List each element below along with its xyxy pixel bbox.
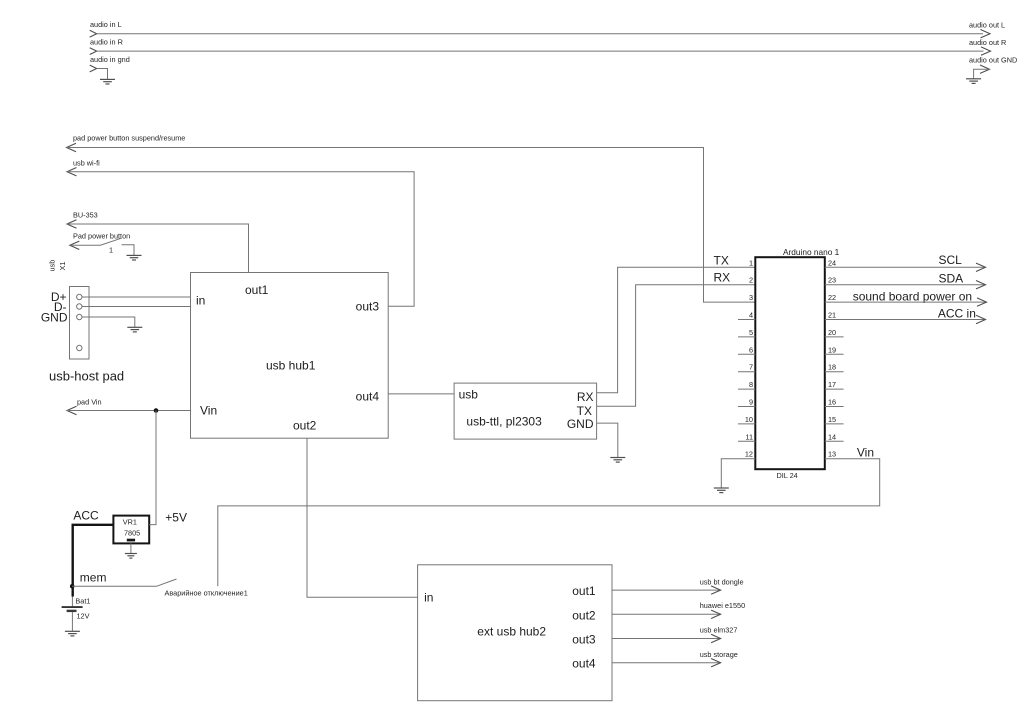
wire xyxy=(218,459,880,587)
svg-text:huawei e1550: huawei e1550 xyxy=(700,601,745,610)
wire xyxy=(70,244,100,246)
switch contact xyxy=(122,245,135,255)
pin 10 xyxy=(738,423,755,425)
svg-text:ACC: ACC xyxy=(73,508,99,522)
svg-text:out4: out4 xyxy=(356,390,380,404)
pin circle D- xyxy=(77,304,82,309)
wire usb-ttl TX to U1 pin2 (RX) xyxy=(597,285,756,407)
switch Pad power button xyxy=(70,232,134,256)
svg-text:out1: out1 xyxy=(572,584,596,598)
net BU-353 (to hub1 out1) xyxy=(67,211,249,273)
svg-text:usb bt dongle: usb bt dongle xyxy=(700,577,744,586)
svg-text:BU-353: BU-353 xyxy=(73,211,98,220)
svg-text:GND: GND xyxy=(41,311,68,325)
svg-text:8: 8 xyxy=(749,380,753,389)
wire D+ to hub1 in xyxy=(82,296,191,298)
svg-text:16: 16 xyxy=(828,398,836,407)
pin 11 xyxy=(738,440,755,442)
svg-text:usb-ttl, pl2303: usb-ttl, pl2303 xyxy=(466,415,542,429)
lead to ground xyxy=(71,612,73,631)
svg-text:+5V: +5V xyxy=(165,511,187,525)
svg-text:24: 24 xyxy=(828,258,836,267)
usb-ttl, pl2303 xyxy=(454,383,596,439)
pin circle D+ xyxy=(77,294,82,299)
svg-text:12V: 12V xyxy=(77,612,90,621)
svg-text:audio out R: audio out R xyxy=(969,38,1006,47)
ground xyxy=(714,488,729,493)
svg-text:15: 15 xyxy=(828,415,836,424)
body xyxy=(755,257,825,469)
switch blade xyxy=(157,579,177,586)
svg-text:7805: 7805 xyxy=(124,528,140,537)
svg-text:audio in L: audio in L xyxy=(90,20,122,29)
pin 8 xyxy=(738,388,755,390)
svg-text:1: 1 xyxy=(749,258,753,267)
node mem / junction xyxy=(70,570,107,588)
node audio in R xyxy=(90,38,984,55)
svg-text:22: 22 xyxy=(828,293,836,302)
svg-text:ACC in: ACC in xyxy=(938,307,976,321)
svg-text:in: in xyxy=(424,591,433,605)
svg-text:usb elm327: usb elm327 xyxy=(700,626,738,635)
net sound board power on (pin 22) xyxy=(825,290,987,307)
svg-text:12: 12 xyxy=(745,450,753,459)
wire xyxy=(67,172,414,307)
node audio out GND xyxy=(969,56,1017,79)
pin 16 xyxy=(825,406,844,408)
svg-text:audio in R: audio in R xyxy=(90,38,123,47)
svg-text:10: 10 xyxy=(745,415,753,424)
regulator VR1 7805 xyxy=(73,411,187,597)
net usb bt dongle (hub2 out1) xyxy=(612,577,744,594)
wire xyxy=(974,69,990,78)
wire +5V output up to pad Vin junction xyxy=(149,411,156,525)
svg-text:out2: out2 xyxy=(572,608,596,622)
svg-text:RX: RX xyxy=(577,390,594,404)
plus plate xyxy=(62,606,83,608)
wire xyxy=(67,148,756,303)
net SCL (pin 24) xyxy=(825,253,986,272)
body xyxy=(113,516,149,544)
svg-text:23: 23 xyxy=(828,276,836,285)
svg-text:usb storage: usb storage xyxy=(700,650,738,659)
wire xyxy=(67,224,249,273)
IC U1 Arduino nano 1 xyxy=(714,247,844,480)
svg-text:TX: TX xyxy=(714,253,729,267)
ground xyxy=(610,458,625,463)
svg-text:usb wi-fi: usb wi-fi xyxy=(73,159,100,168)
svg-text:Vin: Vin xyxy=(200,404,217,418)
tab bar xyxy=(127,539,135,542)
wire xyxy=(97,50,984,52)
svg-text:sound board power on: sound board power on xyxy=(853,290,972,304)
pin 20 xyxy=(825,336,844,338)
switch emergency (Аварийное отключение1) xyxy=(72,579,248,597)
svg-text:4: 4 xyxy=(749,311,753,320)
svg-text:out3: out3 xyxy=(356,300,380,314)
wire xyxy=(97,33,983,35)
svg-text:ext usb hub2: ext usb hub2 xyxy=(477,624,546,638)
net SDA (pin 23) xyxy=(825,272,986,289)
pin numbers right xyxy=(828,258,836,458)
ground xyxy=(125,554,137,559)
net usb storage (hub2 out4) xyxy=(612,650,738,667)
svg-text:SDA: SDA xyxy=(939,272,964,286)
svg-text:out4: out4 xyxy=(572,657,596,671)
ground xyxy=(127,327,142,332)
pin 6 xyxy=(738,353,755,355)
net pad power button suspend/resume (to U1 pin3) xyxy=(67,134,756,303)
net usb wi-fi (to hub1 out3) xyxy=(67,159,414,307)
pin numbers left xyxy=(745,258,753,458)
connector X1 usb-host pad xyxy=(41,260,124,384)
net huawei e1550 (hub2 out2) xyxy=(612,601,745,618)
junction xyxy=(154,408,159,413)
svg-text:7: 7 xyxy=(749,363,753,372)
wire usb-ttl RX to U1 pin1 (TX) xyxy=(597,267,756,392)
switch blade xyxy=(100,238,121,245)
svg-text:18: 18 xyxy=(828,363,836,372)
svg-text:usb: usb xyxy=(459,387,479,401)
pin 5 xyxy=(738,336,755,338)
svg-text:DIL 24: DIL 24 xyxy=(777,471,798,480)
battery Bat1 12V xyxy=(62,597,91,632)
svg-text:out2: out2 xyxy=(293,419,317,433)
pin circle GND xyxy=(77,314,82,319)
svg-text:17: 17 xyxy=(828,380,836,389)
node audio in gnd xyxy=(90,55,130,79)
svg-text:6: 6 xyxy=(749,345,753,354)
svg-text:9: 9 xyxy=(749,398,753,407)
svg-text:5: 5 xyxy=(749,328,753,337)
svg-text:X1: X1 xyxy=(58,262,67,271)
svg-text:in: in xyxy=(196,294,205,308)
svg-text:Vin: Vin xyxy=(857,445,874,459)
node audio out R xyxy=(969,38,1006,55)
svg-text:usb: usb xyxy=(48,260,57,272)
wire hub1 out2 to ext usb hub2 in xyxy=(307,438,418,597)
svg-text:20: 20 xyxy=(828,328,836,337)
wire U1 pin12 to ground xyxy=(721,459,755,488)
node audio in L xyxy=(90,20,983,37)
net pad Vin xyxy=(67,398,191,415)
svg-text:2: 2 xyxy=(749,276,753,285)
ground xyxy=(65,631,80,636)
thick ACC wire xyxy=(73,525,114,597)
svg-text:19: 19 xyxy=(828,345,836,354)
ground xyxy=(966,79,981,84)
svg-text:3: 3 xyxy=(749,293,753,302)
svg-text:1: 1 xyxy=(109,246,113,255)
wire hub1 out4 to usb-ttl usb xyxy=(388,393,454,395)
pin 9 xyxy=(738,406,755,408)
pin 17 xyxy=(825,388,844,390)
net ACC in (pin 21) xyxy=(825,307,986,324)
pin 7 xyxy=(738,371,755,373)
svg-text:pad Vin: pad Vin xyxy=(77,398,102,407)
svg-text:RX: RX xyxy=(714,271,731,285)
svg-text:usb hub1: usb hub1 xyxy=(266,359,316,373)
wire xyxy=(72,585,156,587)
svg-text:audio in gnd: audio in gnd xyxy=(90,55,130,64)
ground xyxy=(127,255,142,260)
wire VR1 gnd xyxy=(130,543,132,553)
wire D- to hub1 in xyxy=(82,306,191,308)
svg-text:usb-host pad: usb-host pad xyxy=(49,369,124,384)
pin 14 xyxy=(825,440,844,442)
connector body xyxy=(70,287,90,360)
svg-text:VR1: VR1 xyxy=(123,517,137,526)
svg-text:Bat1: Bat1 xyxy=(75,597,90,606)
svg-text:mem: mem xyxy=(80,570,107,584)
pin circle 4 xyxy=(77,345,82,350)
wire GND pin xyxy=(82,317,135,327)
svg-text:SCL: SCL xyxy=(939,253,963,267)
pin 18 xyxy=(825,371,844,373)
wire xyxy=(67,410,191,412)
thin lead xyxy=(71,597,73,607)
svg-text:21: 21 xyxy=(828,311,836,320)
pin 4 xyxy=(738,319,755,321)
minus plate xyxy=(67,610,77,612)
net Vin (pin 13) +5V rail to emergency switch xyxy=(218,445,880,586)
ext usb hub2 xyxy=(418,565,612,701)
svg-text:Arduino nano 1: Arduino nano 1 xyxy=(783,247,840,257)
svg-text:Pad power button: Pad power button xyxy=(73,232,130,241)
ground xyxy=(100,79,115,84)
net usb elm327 (hub2 out3) xyxy=(612,626,737,643)
usb hub1 xyxy=(191,273,389,439)
wire xyxy=(97,69,108,80)
svg-text:11: 11 xyxy=(745,432,753,441)
svg-text:13: 13 xyxy=(828,450,836,459)
svg-text:GND: GND xyxy=(567,417,594,431)
svg-text:Аварийное отключение1: Аварийное отключение1 xyxy=(165,588,248,597)
svg-text:out3: out3 xyxy=(572,633,596,647)
svg-text:pad power button suspend/resum: pad power button suspend/resume xyxy=(73,134,185,143)
svg-text:out1: out1 xyxy=(245,283,269,297)
pin 19 xyxy=(825,353,844,355)
svg-text:audio out L: audio out L xyxy=(969,21,1005,30)
svg-text:audio out GND: audio out GND xyxy=(969,56,1017,65)
wire usb-ttl GND xyxy=(597,423,618,457)
pin 15 xyxy=(825,423,844,425)
node audio out L xyxy=(969,21,1005,38)
svg-text:14: 14 xyxy=(828,432,836,441)
